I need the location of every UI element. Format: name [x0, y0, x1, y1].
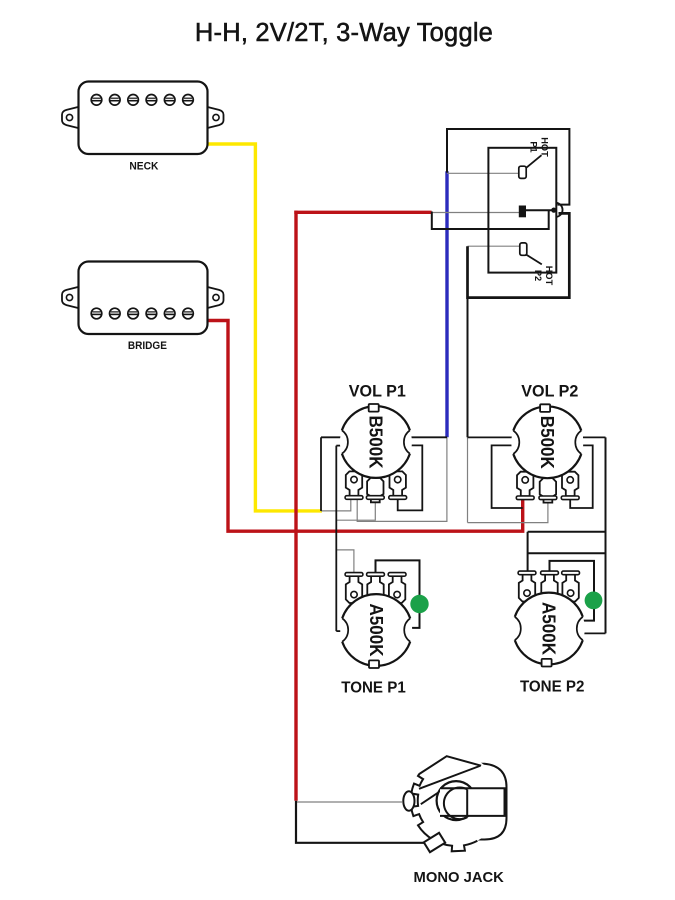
svg-text:H-H, 2V/2T, 3-Way Toggle: H-H, 2V/2T, 3-Way Toggle [195, 19, 493, 47]
svg-text:P1: P1 [529, 141, 539, 152]
svg-text:TONE P2: TONE P2 [520, 678, 585, 695]
svg-text:B500K: B500K [366, 416, 387, 470]
svg-text:VOL P2: VOL P2 [521, 382, 578, 400]
svg-text:A500K: A500K [539, 602, 560, 656]
svg-text:MONO JACK: MONO JACK [414, 869, 504, 886]
svg-text:A500K: A500K [366, 604, 387, 658]
svg-text:HOT: HOT [540, 137, 550, 157]
svg-text:TONE P1: TONE P1 [341, 680, 406, 697]
svg-text:NECK: NECK [129, 161, 159, 173]
svg-text:HOT: HOT [544, 266, 554, 286]
svg-text:VOL P1: VOL P1 [349, 382, 406, 400]
svg-text:P2: P2 [533, 270, 543, 281]
svg-text:B500K: B500K [537, 416, 558, 470]
svg-text:BRIDGE: BRIDGE [128, 340, 167, 352]
